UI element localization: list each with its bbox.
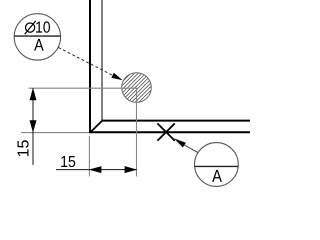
- bottom edge extension line: [21, 132, 89, 134]
- part inner vertical edge (tangent): [101, 0, 103, 121]
- part outer vertical edge: [89, 0, 91, 132]
- left edge extension line: [88, 136, 90, 177]
- balloon bottom-right text A: [212, 170, 222, 182]
- part outer bottom edge: [89, 131, 250, 133]
- horizontal dim arrow right: [125, 166, 138, 173]
- balloon top-left text dia 10: [26, 23, 35, 32]
- leader arrowhead at hole: [111, 73, 122, 81]
- dashed leader from balloon to hole: [59, 48, 114, 76]
- vertical dim arrow down: [30, 120, 37, 132]
- chamfer edge: [90, 121, 102, 133]
- part inner bottom edge: [102, 120, 251, 122]
- balloon top-left circle: [14, 14, 60, 60]
- X surface mark: [157, 123, 174, 140]
- horizontal dim arrow left: [89, 166, 102, 173]
- leader arrowhead at X: [174, 138, 186, 147]
- hole vertical centerline / extension: [136, 88, 138, 177]
- vertical dimension line: [32, 88, 34, 165]
- hole hatch: [112, 4, 152, 133]
- hole horizontal extension line: [29, 87, 137, 89]
- hole outline: [122, 73, 152, 103]
- balloon bottom-right divider: [195, 165, 238, 167]
- horizontal dimension line: [56, 169, 137, 171]
- balloon top-left divider: [14, 35, 60, 37]
- vertical dim text 15: [17, 140, 28, 156]
- horizontal dim text 15: [61, 156, 75, 167]
- balloon top-left text A: [34, 39, 44, 51]
- leader from bottom balloon to X: [184, 145, 198, 153]
- vertical dim arrow up: [30, 88, 37, 101]
- balloon bottom-right circle: [195, 143, 239, 187]
